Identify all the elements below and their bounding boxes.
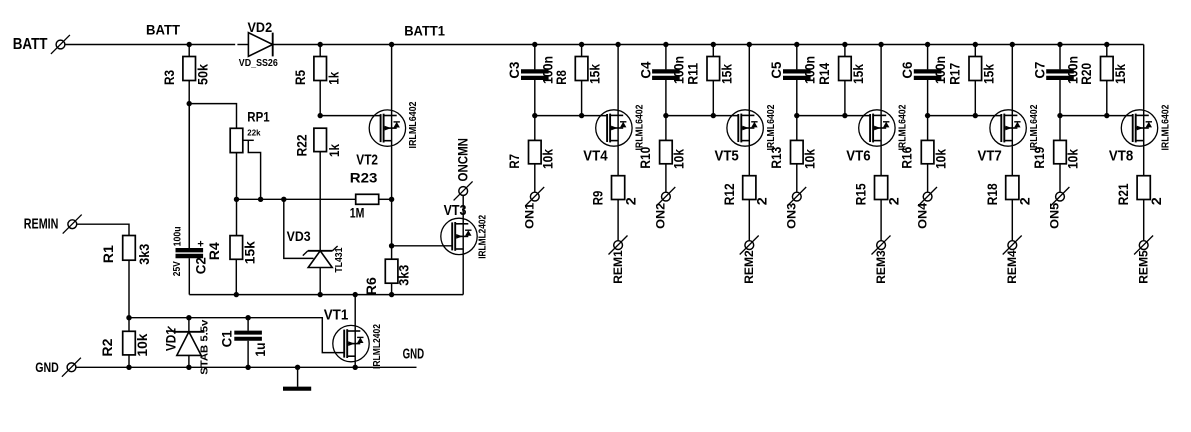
- junction: [295, 365, 300, 370]
- svg-text:2: 2: [886, 197, 902, 205]
- svg-text:R21: R21: [1115, 183, 1131, 205]
- junction: [126, 365, 131, 370]
- svg-text:R2: R2: [99, 338, 115, 356]
- svg-text:IRLML6402: IRLML6402: [1029, 104, 1040, 150]
- junction: [234, 292, 239, 297]
- wire: [319, 152, 321, 251]
- svg-text:VT7: VT7: [978, 148, 1002, 164]
- svg-text:C2: C2: [193, 257, 209, 274]
- resistor R5: [292, 45, 342, 116]
- svg-text:VT2: VT2: [356, 152, 378, 168]
- port REM3: [872, 236, 891, 284]
- svg-text:R3: R3: [161, 70, 177, 85]
- wire: [880, 45, 882, 110]
- junction: [318, 292, 323, 297]
- svg-text:1k: 1k: [326, 72, 342, 85]
- svg-text:R9: R9: [590, 191, 606, 206]
- junction: [186, 315, 191, 320]
- svg-text:REMIN: REMIN: [24, 216, 59, 233]
- port REM4: [1003, 236, 1022, 284]
- transistor VT4: [583, 104, 645, 164]
- junction: [187, 101, 192, 106]
- svg-text:ON4: ON4: [915, 202, 929, 228]
- transistor VT6: [846, 104, 908, 164]
- svg-text:C7: C7: [1031, 61, 1047, 78]
- wire: [237, 44, 248, 46]
- junction: [579, 113, 584, 118]
- transistor VT2: [356, 101, 419, 168]
- wire BATT1 rail: [320, 44, 1143, 46]
- port BATT: [13, 35, 70, 54]
- svg-text:VT8: VT8: [1109, 148, 1133, 164]
- junction: [245, 315, 250, 320]
- wire: [189, 44, 235, 46]
- svg-text:R6: R6: [363, 277, 379, 295]
- svg-text:1u: 1u: [252, 343, 268, 357]
- ground: [283, 367, 311, 388]
- capacitor C7: [1031, 45, 1080, 116]
- svg-text:BATT: BATT: [146, 22, 181, 37]
- wire: [273, 44, 321, 46]
- junction: [187, 42, 192, 47]
- resistor R22: [293, 128, 342, 157]
- junction: [234, 197, 239, 202]
- wire: [188, 104, 190, 248]
- svg-text:REM2: REM2: [742, 250, 756, 284]
- node GND label: [403, 347, 425, 363]
- wire: [379, 198, 392, 200]
- wire: [354, 295, 356, 326]
- svg-text:IRLML6402: IRLML6402: [408, 101, 419, 148]
- wire: [666, 115, 738, 117]
- svg-text:REM1: REM1: [611, 250, 625, 284]
- svg-text:R19: R19: [1031, 147, 1047, 169]
- svg-text:10k: 10k: [540, 149, 556, 169]
- transistor VT1: [324, 307, 383, 369]
- svg-text:25V: 25V: [172, 261, 183, 276]
- junction: [258, 197, 263, 202]
- svg-text:2: 2: [754, 197, 770, 205]
- junction: [281, 197, 286, 202]
- capacitor C1: [218, 318, 268, 368]
- svg-text:R1: R1: [100, 245, 116, 263]
- port ONCMN: [454, 138, 473, 200]
- svg-text:C3: C3: [506, 61, 522, 78]
- wire: [748, 45, 750, 110]
- junction: [615, 42, 620, 47]
- wire: [462, 255, 464, 295]
- svg-text:IRLML6402: IRLML6402: [898, 104, 909, 150]
- svg-text:GND: GND: [403, 347, 425, 363]
- svg-text:IRLML6402: IRLML6402: [766, 104, 777, 150]
- wire: [797, 115, 870, 117]
- svg-text:C1: C1: [218, 330, 234, 347]
- svg-text:STAB 5.5v: STAB 5.5v: [199, 319, 210, 374]
- resistor R2: [99, 318, 150, 368]
- junction: [389, 243, 394, 248]
- svg-text:10k: 10k: [671, 149, 687, 169]
- svg-text:50k: 50k: [195, 64, 211, 85]
- junction: [579, 42, 584, 47]
- wire ref VD3: [284, 199, 314, 258]
- resistor R10: [637, 116, 687, 193]
- diode VD2: [239, 19, 278, 69]
- wire: [1060, 115, 1133, 117]
- junction: [878, 42, 883, 47]
- svg-text:R4: R4: [206, 242, 222, 260]
- wire: [391, 146, 393, 199]
- junction: [663, 42, 668, 47]
- svg-text:1k: 1k: [326, 144, 342, 157]
- svg-text:3k3: 3k3: [395, 265, 411, 286]
- svg-text:2: 2: [1148, 197, 1164, 205]
- svg-text:VD2: VD2: [248, 19, 273, 35]
- wire: [617, 45, 619, 110]
- wire rail C: [76, 366, 417, 368]
- svg-text:ON3: ON3: [785, 202, 799, 228]
- svg-text:3k3: 3k3: [136, 244, 152, 265]
- svg-text:VD3: VD3: [287, 228, 311, 244]
- svg-text:REM4: REM4: [1005, 250, 1019, 284]
- svg-text:R11: R11: [685, 63, 701, 85]
- junction: [532, 113, 537, 118]
- port REM1: [609, 236, 628, 284]
- junction: [1057, 113, 1062, 118]
- transistor VT7: [978, 104, 1040, 164]
- resistor R11: [685, 45, 735, 116]
- junction: [186, 365, 191, 370]
- svg-text:ONCMN: ONCMN: [455, 138, 471, 182]
- wire rail A: [189, 294, 463, 296]
- junction: [842, 42, 847, 47]
- wire: [391, 199, 393, 246]
- junction: [389, 292, 394, 297]
- wire: [65, 44, 189, 46]
- svg-text:10k: 10k: [802, 149, 818, 169]
- svg-text:C4: C4: [637, 61, 653, 78]
- svg-text:1M: 1M: [350, 205, 365, 221]
- resistor R20: [1078, 45, 1128, 116]
- svg-text:IRLML6402: IRLML6402: [635, 104, 646, 150]
- node BATT1 label: [404, 22, 445, 38]
- svg-text:10k: 10k: [1065, 149, 1081, 169]
- svg-text:R22: R22: [293, 134, 309, 156]
- resistor R17: [947, 45, 997, 116]
- wire gate VT2: [320, 115, 380, 117]
- capacitor C2: [172, 104, 209, 295]
- resistor R6: [363, 246, 412, 295]
- svg-text:R12: R12: [721, 183, 737, 205]
- port ON5: [1048, 187, 1070, 229]
- junction: [389, 197, 394, 202]
- transistor VT5: [715, 104, 777, 164]
- junction: [318, 113, 323, 118]
- port REM5: [1134, 236, 1153, 284]
- resistor R13: [768, 116, 818, 193]
- svg-text:2: 2: [623, 197, 639, 205]
- wire gate VT3: [392, 245, 453, 247]
- junction: [711, 113, 716, 118]
- resistor R1: [100, 236, 152, 318]
- svg-text:TL431: TL431: [334, 247, 345, 272]
- capacitor C3: [506, 45, 555, 116]
- shunt regulator VD3 TL431: [287, 228, 345, 273]
- svg-text:GND: GND: [35, 359, 59, 375]
- port REMIN: [24, 215, 82, 234]
- svg-text:VT4: VT4: [583, 148, 607, 164]
- svg-text:ON2: ON2: [654, 202, 668, 228]
- wire: [391, 45, 393, 111]
- wire: [319, 268, 321, 295]
- svg-text:+: +: [197, 239, 204, 251]
- svg-text:15k: 15k: [980, 64, 996, 84]
- wire: [354, 362, 356, 368]
- junction: [353, 365, 358, 370]
- junction: [663, 113, 668, 118]
- potentiometer RP1: [230, 108, 270, 199]
- port ON3: [785, 187, 807, 229]
- resistor R16: [899, 116, 949, 193]
- svg-text:REM3: REM3: [874, 250, 888, 284]
- resistor R9: [590, 146, 639, 241]
- svg-text:C6: C6: [899, 61, 915, 78]
- svg-text:BATT: BATT: [13, 36, 48, 53]
- svg-text:15k: 15k: [850, 64, 866, 84]
- wire rail B: [129, 318, 344, 353]
- svg-text:IRLML2402: IRLML2402: [372, 324, 383, 369]
- junction: [389, 42, 394, 47]
- resistor R19: [1031, 116, 1081, 193]
- port ON2: [654, 187, 676, 229]
- svg-text:10k: 10k: [932, 149, 948, 169]
- svg-text:BATT1: BATT1: [404, 22, 445, 38]
- resistor R18: [984, 146, 1033, 241]
- capacitor C4: [637, 45, 686, 116]
- svg-text:VT3: VT3: [444, 203, 467, 219]
- port ON4: [915, 187, 937, 229]
- junction: [1104, 42, 1109, 47]
- junction: [973, 42, 978, 47]
- junction: [1010, 42, 1015, 47]
- wire: [1011, 45, 1013, 110]
- junction: [318, 42, 323, 47]
- port GND: [35, 358, 81, 377]
- wire: [77, 224, 129, 235]
- junction: [925, 42, 930, 47]
- resistor R12: [721, 146, 770, 241]
- resistor R4: [206, 199, 257, 294]
- wire: [462, 195, 464, 218]
- node BATT label: [146, 22, 181, 37]
- svg-text:R7: R7: [506, 154, 522, 169]
- wire: [1143, 45, 1145, 110]
- capacitor C5: [768, 45, 817, 116]
- junction: [126, 315, 131, 320]
- junction: [925, 113, 930, 118]
- wire: [189, 104, 236, 129]
- wire: [928, 115, 1002, 117]
- svg-text:R23: R23: [350, 170, 378, 186]
- svg-text:R16: R16: [899, 147, 915, 169]
- junction: [532, 42, 537, 47]
- svg-text:VD_SS26: VD_SS26: [239, 58, 278, 69]
- transistor VT3: [441, 203, 489, 259]
- svg-text:R20: R20: [1078, 63, 1094, 85]
- svg-text:VT5: VT5: [715, 148, 739, 164]
- port ON1: [523, 187, 545, 229]
- resistor R7: [506, 116, 556, 193]
- wire: [535, 115, 607, 117]
- svg-text:R8: R8: [553, 70, 569, 85]
- svg-text:2: 2: [1017, 197, 1033, 205]
- resistor R8: [553, 45, 603, 116]
- svg-text:10k: 10k: [134, 333, 150, 356]
- svg-text:ON5: ON5: [1048, 202, 1062, 228]
- resistor R15: [853, 146, 902, 241]
- wire: [237, 198, 356, 200]
- svg-text:R10: R10: [637, 147, 653, 169]
- svg-text:C5: C5: [768, 61, 784, 78]
- svg-text:15k: 15k: [1112, 64, 1128, 84]
- svg-text:RP1: RP1: [247, 108, 269, 124]
- port REM2: [740, 236, 759, 284]
- svg-text:R15: R15: [853, 183, 869, 205]
- junction: [973, 113, 978, 118]
- junction: [794, 42, 799, 47]
- svg-text:R18: R18: [984, 183, 1000, 205]
- svg-text:R5: R5: [292, 70, 308, 85]
- svg-text:15k: 15k: [241, 241, 257, 264]
- zener diode VD1: [163, 318, 211, 375]
- transistor VT8: [1109, 104, 1171, 164]
- svg-text:IRLML6402: IRLML6402: [1160, 104, 1171, 150]
- svg-text:ON1: ON1: [523, 202, 537, 228]
- svg-text:R14: R14: [816, 63, 832, 85]
- svg-text:15k: 15k: [718, 64, 734, 84]
- svg-text:REM5: REM5: [1137, 250, 1151, 284]
- junction: [747, 42, 752, 47]
- svg-text:R17: R17: [947, 63, 963, 85]
- junction: [711, 42, 716, 47]
- svg-text:22k: 22k: [247, 127, 260, 137]
- svg-text:100u: 100u: [173, 226, 184, 246]
- svg-text:100n: 100n: [801, 56, 817, 84]
- resistor R14: [816, 45, 866, 116]
- junction: [1057, 42, 1062, 47]
- svg-text:15k: 15k: [587, 64, 603, 84]
- junction: [245, 365, 250, 370]
- resistor R23: [350, 170, 379, 221]
- svg-text:IRLML2402: IRLML2402: [477, 214, 488, 258]
- junction: [794, 113, 799, 118]
- resistor R21: [1115, 146, 1164, 241]
- svg-text:VD1: VD1: [163, 328, 179, 351]
- capacitor C6: [899, 45, 948, 116]
- svg-text:R13: R13: [768, 147, 784, 169]
- resistor R3: [161, 45, 211, 104]
- svg-text:VT1: VT1: [324, 307, 349, 323]
- svg-text:VT6: VT6: [846, 148, 870, 164]
- junction: [353, 292, 358, 297]
- junction: [842, 113, 847, 118]
- junction: [1104, 113, 1109, 118]
